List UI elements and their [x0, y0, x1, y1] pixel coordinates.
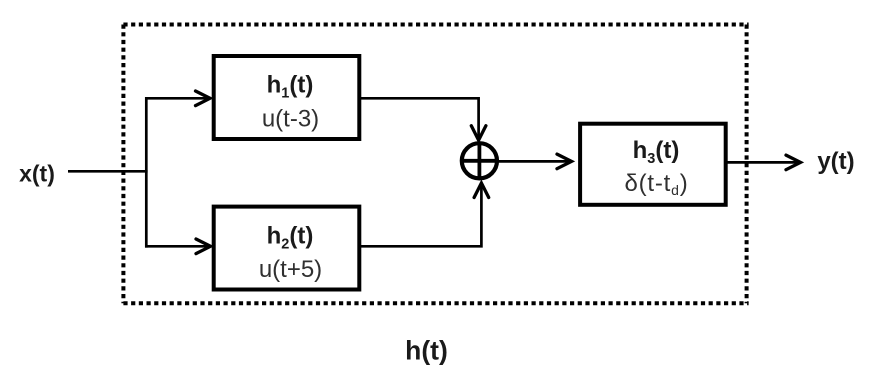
- svg-text:y(t): y(t): [817, 148, 854, 175]
- svg-text:u(t+5): u(t+5): [259, 256, 322, 283]
- svg-text:h2(t): h2(t): [267, 222, 314, 252]
- svg-text:x(t): x(t): [19, 161, 55, 187]
- svg-text:h(t): h(t): [405, 336, 448, 366]
- svg-text:h1(t): h1(t): [267, 72, 314, 102]
- svg-text:δ(t-td): δ(t-td): [624, 170, 688, 198]
- svg-text:u(t-3): u(t-3): [262, 106, 319, 133]
- svg-text:h3(t): h3(t): [633, 137, 680, 167]
